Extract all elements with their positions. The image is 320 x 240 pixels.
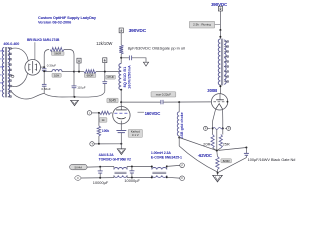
svg-text:-62VDC: -62VDC xyxy=(198,153,212,158)
svg-text:Custom OptiHiF Supply LadyDay: Custom OptiHiF Supply LadyDay xyxy=(38,16,97,20)
svg-text:8µF/630VDC Oil&Sgate pp in oil: 8µF/630VDC Oil&Sgate pp in oil xyxy=(128,45,185,50)
svg-text:1.00mH 2.3A: 1.00mH 2.3A xyxy=(151,151,171,155)
svg-text:2.5k : Runing: 2.5k : Runing xyxy=(193,23,211,27)
svg-text:160VDC: 160VDC xyxy=(145,111,161,116)
svg-text:Version 08-02-2006: Version 08-02-2006 xyxy=(38,20,71,24)
svg-text:TOROID GHT96B V2: TOROID GHT96B V2 xyxy=(99,157,131,161)
svg-text:0.56uF: 0.56uF xyxy=(41,87,51,91)
svg-text:BRI BLKD 5AR4 2T4B: BRI BLKD 5AR4 2T4B xyxy=(27,38,60,42)
svg-text:SSB grid choke: SSB grid choke xyxy=(180,112,184,138)
svg-text:E-CORE 6NE3425-1: E-CORE 6NE3425-1 xyxy=(151,155,182,159)
svg-text:100µF/16WV Black Gate N#: 100µF/16WV Black Gate N# xyxy=(248,157,297,162)
svg-text:560R: 560R xyxy=(54,52,61,56)
svg-text:5V/4A: 5V/4A xyxy=(74,165,82,169)
svg-text:3.1 V: 3.1 V xyxy=(132,133,139,137)
svg-text:10000µF: 10000µF xyxy=(93,180,109,185)
svg-text:12k/10W: 12k/10W xyxy=(96,41,112,46)
svg-text:100k: 100k xyxy=(102,129,110,133)
svg-text:6c45: 6c45 xyxy=(109,99,116,103)
svg-text:25R: 25R xyxy=(223,142,230,147)
svg-text:0: 0 xyxy=(0,58,2,60)
svg-text:20R: 20R xyxy=(203,142,210,147)
svg-text:47UF: 47UF xyxy=(107,75,114,79)
svg-text:0.30uF: 0.30uF xyxy=(47,64,57,68)
svg-text:390VDC: 390VDC xyxy=(129,28,147,34)
svg-text:115: 115 xyxy=(0,82,4,84)
svg-text:10000µF: 10000µF xyxy=(124,178,140,183)
svg-text:10H: 10H xyxy=(54,73,59,77)
svg-text:300B: 300B xyxy=(207,88,217,93)
svg-text:820R: 820R xyxy=(223,159,230,163)
svg-text:110µF: 110µF xyxy=(77,85,86,89)
svg-text:400-0-400: 400-0-400 xyxy=(3,42,19,46)
svg-text:8Q B1D B1: 8Q B1D B1 xyxy=(123,67,127,88)
svg-text:160V/250mA: 160V/250mA xyxy=(127,65,131,89)
svg-text:mar 0.22uF: mar 0.22uF xyxy=(156,92,172,96)
svg-text:1k: 1k xyxy=(102,118,106,122)
svg-text:680R: 680R xyxy=(87,74,94,78)
